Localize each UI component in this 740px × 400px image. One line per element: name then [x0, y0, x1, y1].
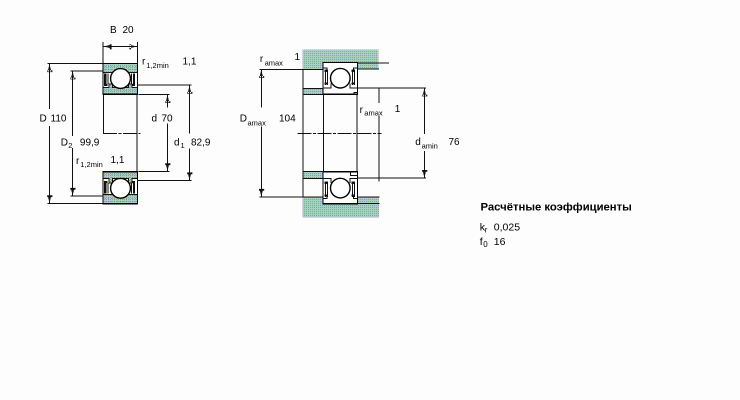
- dim D arrow top: [47, 64, 52, 72]
- svg-text:B: B: [110, 25, 117, 36]
- dim da arrow bottom: [422, 170, 427, 178]
- svg-text:Расчётные коэффициенты: Расчётные коэффициенты: [481, 201, 632, 213]
- shaft bore line top left: [303, 93, 323, 95]
- dim D extension top: [48, 63, 103, 65]
- svg-text:82,9: 82,9: [191, 138, 211, 149]
- dim Da arrow top: [259, 70, 264, 78]
- top section border: [103, 64, 138, 95]
- dim da line: [423, 88, 425, 177]
- section cut edge left: [302, 69, 304, 197]
- dim D2 extension bottom: [71, 195, 103, 197]
- housing recess line bottom right: [357, 196, 379, 198]
- centerline: [104, 132, 141, 134]
- seal left (top section): [104, 73, 106, 84]
- dim d arrow top: [165, 95, 170, 103]
- shaft bore line bottom left: [303, 171, 323, 173]
- svg-text:amax: amax: [248, 118, 267, 127]
- svg-text:110: 110: [51, 113, 67, 124]
- centerline right drawing: [298, 132, 381, 134]
- inner ring race lines (top): [323, 84, 358, 94]
- housing upper block: [302, 50, 378, 70]
- dim B arrow right: [129, 44, 137, 49]
- dim d extension top: [139, 93, 169, 95]
- dim da extension top: [358, 87, 426, 89]
- svg-text:1,1: 1,1: [111, 155, 125, 166]
- housing bore line right: [358, 62, 389, 64]
- bearing bore edge left (right drawing): [322, 94, 324, 171]
- svg-text:D: D: [61, 138, 68, 149]
- svg-text:D: D: [40, 113, 47, 124]
- svg-text:d: d: [415, 137, 421, 148]
- housing upper right recess band: [358, 63, 379, 69]
- seal left (bottom section): [104, 183, 106, 194]
- dim B arrow left: [103, 44, 111, 49]
- bore edge left: [102, 94, 104, 132]
- ball (bottom section): [111, 178, 131, 198]
- svg-text:0: 0: [483, 240, 488, 249]
- seal left (top section, outline bearing): [325, 70, 327, 85]
- dim D2 extension top: [71, 70, 103, 72]
- dim B extension right: [137, 43, 139, 64]
- shaft shoulder top line: [303, 88, 323, 90]
- outer ring race lines (top): [323, 68, 358, 72]
- svg-text:20: 20: [123, 25, 135, 36]
- svg-text:104: 104: [279, 113, 296, 124]
- svg-text:d: d: [174, 138, 180, 149]
- svg-text:1,1: 1,1: [183, 57, 197, 68]
- svg-text:D: D: [240, 113, 247, 124]
- ball outline (bottom): [331, 178, 351, 198]
- dim d1 line: [189, 86, 191, 181]
- inner ring race lines (bottom): [323, 172, 358, 183]
- svg-text:1: 1: [295, 52, 301, 63]
- dim da arrow top: [422, 88, 427, 96]
- housing shoulder line left (Da top extension): [260, 68, 323, 70]
- bearing top section base: [103, 64, 138, 95]
- dim d1 arrow bottom: [187, 172, 192, 180]
- dim d1 extension top: [138, 84, 192, 86]
- seal right (bottom section, outline bearing): [352, 182, 354, 197]
- housing recess line right: [358, 68, 379, 70]
- dim d extension bottom: [139, 171, 169, 173]
- dim d1 arrow top: [187, 86, 192, 94]
- shaft shoulder top band: [303, 89, 323, 95]
- svg-text:r: r: [485, 225, 488, 234]
- dim D arrow bottom: [47, 195, 52, 203]
- svg-text:amin: amin: [422, 142, 438, 151]
- seal right (top section): [133, 73, 135, 84]
- svg-text:amax: amax: [364, 108, 383, 117]
- ball outline (top): [331, 68, 351, 88]
- housing bore line bottom right: [357, 203, 379, 205]
- bearing outline top section: [323, 63, 358, 95]
- svg-text:99,9: 99,9: [80, 138, 100, 149]
- outer ring (top section): [103, 64, 138, 73]
- svg-text:1: 1: [395, 104, 401, 115]
- dim B extension left: [102, 43, 104, 64]
- dim d line: [167, 95, 169, 171]
- svg-text:16: 16: [494, 236, 506, 248]
- dim D2 line: [72, 71, 74, 195]
- r_amax leader: [378, 88, 380, 181]
- svg-text:0,025: 0,025: [494, 221, 520, 233]
- svg-text:1: 1: [181, 141, 185, 150]
- inner ring (top section): [103, 84, 138, 94]
- svg-text:1,2min: 1,2min: [80, 160, 103, 169]
- shaft shoulder bottom line: [303, 178, 323, 180]
- dim d arrow bottom: [165, 163, 170, 171]
- bore edge right: [136, 94, 138, 171]
- seal left (bottom section, outline bearing): [325, 182, 327, 197]
- inner ring (bottom section): [103, 172, 138, 183]
- bearing outline bottom section: [323, 172, 358, 204]
- outer ring race lines (bottom): [323, 195, 358, 199]
- svg-text:70: 70: [162, 113, 174, 124]
- shaft shoulder bottom band: [303, 172, 323, 179]
- svg-text:d: d: [152, 113, 158, 124]
- housing lower block: [302, 197, 379, 217]
- dim D2 arrow top: [70, 71, 75, 79]
- seal right (bottom section): [133, 183, 135, 194]
- dim B line: [103, 46, 138, 48]
- bearing bore edge right (right drawing): [356, 94, 358, 171]
- svg-text:2: 2: [68, 141, 72, 150]
- dim D2 arrow bottom: [70, 188, 75, 196]
- svg-text:amax: amax: [265, 58, 284, 67]
- svg-text:76: 76: [449, 137, 461, 148]
- bottom section border: [103, 172, 138, 204]
- dim d1 extension bottom: [138, 180, 192, 182]
- dim Da line: [260, 70, 262, 197]
- dim D extension bottom: [48, 202, 103, 204]
- dim da extension bottom: [358, 177, 426, 179]
- bearing bottom section base: [103, 172, 138, 204]
- ball (top section): [111, 69, 131, 89]
- outer ring (bottom section): [103, 195, 138, 204]
- dim D line: [49, 64, 51, 203]
- seal right (top section, outline bearing): [352, 70, 354, 85]
- dim Da arrow bottom: [259, 189, 264, 197]
- svg-text:1,2min: 1,2min: [146, 61, 169, 70]
- housing shoulder line bottom left (Da bottom extension): [260, 196, 325, 198]
